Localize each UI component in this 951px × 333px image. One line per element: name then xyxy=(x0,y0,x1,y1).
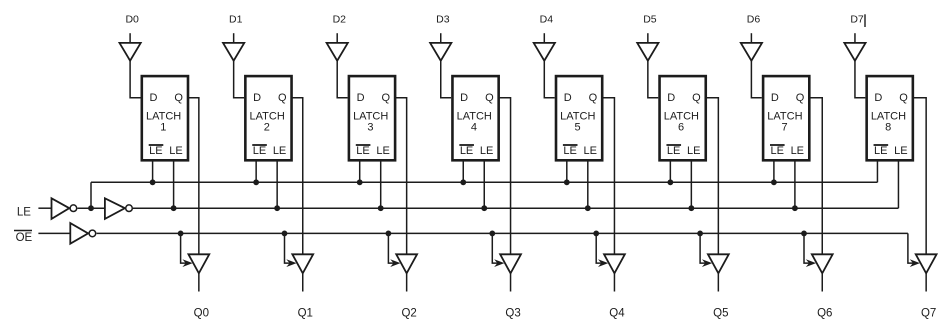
svg-text:Q: Q xyxy=(692,92,701,104)
junction enable tap 5 / rail 3 xyxy=(593,231,599,237)
svg-text:1: 1 xyxy=(160,122,166,134)
wire input buffer to latch 4 D pin xyxy=(441,61,451,98)
svg-text:LATCH: LATCH xyxy=(664,110,699,122)
svg-text:LE: LE xyxy=(687,145,700,157)
svg-text:D: D xyxy=(460,92,468,104)
wire latch 2 LE-bar pin to rail 1 xyxy=(255,161,257,182)
tri-state output buffer Q7 xyxy=(916,254,937,273)
latch LATCH 4 xyxy=(452,76,498,160)
svg-text:Q2: Q2 xyxy=(401,308,416,320)
svg-text:LE: LE xyxy=(460,145,473,157)
svg-text:Q3: Q3 xyxy=(505,308,520,320)
arrowhead enable into output buffer 6 xyxy=(702,259,712,267)
wire latch 7 LE-bar pin to rail 1 xyxy=(773,161,775,182)
wire rail 2 : LE net xyxy=(133,207,898,209)
wire output buffer to Q0 xyxy=(198,273,200,291)
junction latch 3 LE / rail 2 xyxy=(378,205,384,211)
wire input buffer to latch 3 D pin xyxy=(337,61,347,98)
junction latch 1 LE / rail 2 xyxy=(171,205,177,211)
wire OE enable tap to output buffer 8 xyxy=(908,233,915,263)
svg-text:D: D xyxy=(150,92,158,104)
latch LATCH 2 xyxy=(245,76,291,160)
wire OE enable tap to output buffer 6 xyxy=(700,233,707,263)
svg-text:Q: Q xyxy=(589,92,598,104)
wire latch 4 LE-bar pin to rail 1 xyxy=(462,161,464,182)
svg-text:Q7: Q7 xyxy=(921,308,936,320)
svg-text:D: D xyxy=(771,92,779,104)
inverter U3 (OE) xyxy=(70,223,88,244)
svg-text:D6: D6 xyxy=(747,14,761,26)
tri-state output buffer Q3 xyxy=(500,254,521,273)
wire output buffer to Q7 xyxy=(925,273,927,291)
svg-text:6: 6 xyxy=(678,122,684,134)
input buffer D0 xyxy=(120,43,141,61)
svg-text:Q0: Q0 xyxy=(194,308,209,320)
svg-text:Q5: Q5 xyxy=(713,308,728,320)
svg-text:4: 4 xyxy=(471,122,477,134)
junction latch 5 LE / rail 2 xyxy=(585,205,591,211)
input buffer D3 xyxy=(430,43,451,61)
wire D2 label to input buffer xyxy=(336,33,338,43)
wire output buffer to Q1 xyxy=(302,273,304,291)
svg-text:Q1: Q1 xyxy=(298,308,313,320)
svg-text:LE: LE xyxy=(253,145,266,157)
tri-state output buffer Q5 xyxy=(708,254,729,273)
arrowhead enable into output buffer 4 xyxy=(494,259,504,267)
wire latch 6 LE-bar pin to rail 1 xyxy=(669,161,671,182)
wire latch 7 LE pin to rail 2 xyxy=(794,161,796,208)
svg-text:D7: D7 xyxy=(850,14,864,26)
svg-text:Q: Q xyxy=(899,92,908,104)
svg-text:LATCH: LATCH xyxy=(250,110,285,122)
wire OE enable tap to output buffer 7 xyxy=(804,233,811,263)
wire D6 label to input buffer xyxy=(750,33,752,43)
svg-text:LE: LE xyxy=(874,145,887,157)
wire input buffer to latch 7 D pin xyxy=(751,61,761,98)
wire latch 3 Q to output buffer xyxy=(395,98,407,254)
wire latch 6 Q to output buffer xyxy=(706,98,719,254)
wire output buffer to Q6 xyxy=(821,273,823,291)
wire LE-bar segment xyxy=(78,207,105,209)
svg-text:D0: D0 xyxy=(125,14,139,26)
svg-text:D: D xyxy=(357,92,365,104)
arrowhead enable into output buffer 3 xyxy=(390,259,400,267)
svg-text:Q4: Q4 xyxy=(609,308,625,320)
svg-text:2: 2 xyxy=(264,122,270,134)
junction latch 4 LE / rail 2 xyxy=(481,205,487,211)
latch LATCH 5 xyxy=(556,76,602,160)
junction latch 4 LE-bar / rail 1 xyxy=(460,179,466,185)
wire latch 8 Q to output buffer xyxy=(913,98,926,254)
wire D5 label to input buffer xyxy=(647,33,649,43)
arrowhead enable into output buffer 1 xyxy=(182,259,192,267)
wire D4 label to input buffer xyxy=(543,33,545,43)
svg-text:D5: D5 xyxy=(643,14,657,26)
svg-text:LE: LE xyxy=(894,145,907,157)
junction enable tap 6 / rail 3 xyxy=(697,231,703,237)
svg-text:LE: LE xyxy=(480,145,493,157)
input buffer D1 xyxy=(223,43,244,61)
svg-text:LE: LE xyxy=(273,145,286,157)
svg-text:LE: LE xyxy=(17,207,31,219)
wire input buffer to latch 5 D pin xyxy=(544,61,554,98)
tri-state output buffer Q0 xyxy=(188,254,209,273)
wire latch 5 LE pin to rail 2 xyxy=(587,161,589,208)
wire latch 1 LE-bar pin to rail 1 xyxy=(152,161,154,182)
wire input buffer to latch 1 D pin xyxy=(130,61,140,98)
latch LATCH 1 xyxy=(142,76,188,160)
wire latch 1 Q to output buffer xyxy=(188,98,199,254)
latch LATCH 8 xyxy=(867,76,913,160)
wire input buffer to latch 6 D pin xyxy=(648,61,658,98)
wire output buffer to Q3 xyxy=(510,273,512,291)
svg-text:Q: Q xyxy=(278,92,287,104)
wire D0 label to input buffer xyxy=(129,33,131,43)
svg-text:LE: LE xyxy=(667,145,680,157)
wire latch 4 LE pin to rail 2 xyxy=(483,161,485,208)
svg-text:LE: LE xyxy=(791,145,804,157)
input buffer D4 xyxy=(534,43,555,61)
inverter U2 (LE second) xyxy=(105,198,125,219)
svg-text:LE: LE xyxy=(583,145,596,157)
junction enable tap 3 / rail 3 xyxy=(386,231,392,237)
arrowhead enable into output buffer 8 xyxy=(910,259,920,267)
arrowhead enable into output buffer 5 xyxy=(598,259,608,267)
tri-state output buffer Q6 xyxy=(812,254,833,273)
svg-text:D: D xyxy=(667,92,675,104)
input buffer D7 xyxy=(844,43,865,61)
junction latch 1 LE-bar / rail 1 xyxy=(150,179,156,185)
svg-text:D: D xyxy=(253,92,261,104)
wire OE enable tap to output buffer 1 xyxy=(181,233,188,263)
junction enable tap 4 / rail 3 xyxy=(489,231,495,237)
svg-text:D3: D3 xyxy=(436,14,450,26)
wire OE enable tap to output buffer 5 xyxy=(596,233,603,263)
junction latch 2 LE-bar / rail 1 xyxy=(253,179,259,185)
svg-text:LE: LE xyxy=(563,145,576,157)
wire latch 5 LE-bar pin to rail 1 xyxy=(566,161,568,182)
svg-text:Q: Q xyxy=(485,92,494,104)
input buffer D5 xyxy=(637,43,658,61)
svg-text:LATCH: LATCH xyxy=(457,110,492,122)
junction latch 6 LE / rail 2 xyxy=(688,205,694,211)
wire OE enable tap to output buffer 3 xyxy=(388,233,395,263)
svg-text:LATCH: LATCH xyxy=(871,110,906,122)
svg-text:7: 7 xyxy=(782,122,788,134)
svg-text:LE: LE xyxy=(356,145,369,157)
tri-state output buffer Q4 xyxy=(604,254,625,273)
wire OE enable tap to output buffer 4 xyxy=(492,233,499,263)
svg-text:D2: D2 xyxy=(333,14,347,26)
wire OE enable tap to output buffer 2 xyxy=(285,233,292,263)
svg-text:Q: Q xyxy=(174,92,183,104)
svg-text:D: D xyxy=(874,92,882,104)
wire latch 8 LE-bar pin to rail 1 xyxy=(876,161,878,182)
wire OE input xyxy=(38,232,70,234)
latch LATCH 7 xyxy=(763,76,809,160)
svg-text:LATCH: LATCH xyxy=(146,110,181,122)
input buffer D6 xyxy=(741,43,762,61)
junction enable tap 2 / rail 3 xyxy=(282,231,288,237)
svg-text:Q: Q xyxy=(382,92,391,104)
svg-text:LE: LE xyxy=(149,145,162,157)
wire latch 7 Q to output buffer xyxy=(809,98,822,254)
wire latch 5 Q to output buffer xyxy=(602,98,614,254)
tri-state output buffer Q2 xyxy=(396,254,417,273)
junction latch 7 LE-bar / rail 1 xyxy=(771,179,777,185)
wire rail 1 : LE-bar net xyxy=(91,181,877,183)
arrowhead enable into output buffer 2 xyxy=(286,259,296,267)
junction latch 3 LE-bar / rail 1 xyxy=(357,179,363,185)
svg-text:D4: D4 xyxy=(540,14,554,26)
latch LATCH 3 xyxy=(349,76,395,160)
wire latch 8 LE pin to rail 2 xyxy=(897,161,899,208)
svg-text:3: 3 xyxy=(367,122,373,134)
wire output buffer to Q5 xyxy=(717,273,719,291)
junction enable tap 7 / rail 3 xyxy=(801,231,807,237)
svg-text:LE: LE xyxy=(770,145,783,157)
junction latch 6 LE-bar / rail 1 xyxy=(667,179,673,185)
svg-text:LE: LE xyxy=(376,145,389,157)
wire tap up to rail 1 xyxy=(90,182,92,208)
svg-text:Q6: Q6 xyxy=(817,308,832,320)
input buffer D2 xyxy=(327,43,348,61)
junction latch 7 LE / rail 2 xyxy=(792,205,798,211)
svg-text:8: 8 xyxy=(885,122,891,134)
wire latch 6 LE pin to rail 2 xyxy=(690,161,692,208)
inverter U1 (LE first) xyxy=(52,198,70,219)
svg-text:LE: LE xyxy=(169,145,182,157)
wire latch 1 LE pin to rail 2 xyxy=(173,161,175,208)
wire D3 label to input buffer xyxy=(440,33,442,43)
latch LATCH 6 xyxy=(660,76,706,160)
wire latch 2 LE pin to rail 2 xyxy=(276,161,278,208)
svg-text:D1: D1 xyxy=(229,14,243,26)
svg-text:Q: Q xyxy=(796,92,805,104)
text cursor artifact after D7 xyxy=(864,14,866,27)
wire latch 3 LE-bar pin to rail 1 xyxy=(359,161,361,182)
arrowhead enable into output buffer 7 xyxy=(806,259,816,267)
svg-text:LATCH: LATCH xyxy=(767,110,802,122)
wire output buffer to Q4 xyxy=(613,273,615,291)
svg-text:OE: OE xyxy=(16,232,33,244)
tri-state output buffer Q1 xyxy=(292,254,313,273)
svg-text:LATCH: LATCH xyxy=(560,110,595,122)
junction enable tap 1 / rail 3 xyxy=(178,231,184,237)
wire rail 3 : OE-bar net xyxy=(97,232,908,234)
wire latch 4 Q to output buffer xyxy=(499,98,511,254)
wire input buffer to latch 2 D pin xyxy=(234,61,244,98)
junction latch 2 LE / rail 2 xyxy=(274,205,280,211)
wire latch 3 LE pin to rail 2 xyxy=(380,161,382,208)
wire D1 label to input buffer xyxy=(233,33,235,43)
wire input buffer to latch 8 D pin xyxy=(855,61,865,98)
svg-text:D: D xyxy=(564,92,572,104)
junction latch 5 LE-bar / rail 1 xyxy=(564,179,570,185)
wire D7 label to input buffer xyxy=(854,33,856,43)
svg-text:5: 5 xyxy=(574,122,580,134)
wire LE input xyxy=(38,207,51,209)
svg-text:LATCH: LATCH xyxy=(353,110,388,122)
wire output buffer to Q2 xyxy=(406,273,408,291)
junction LE-bar tap xyxy=(88,205,94,211)
wire latch 2 Q to output buffer xyxy=(292,98,303,254)
